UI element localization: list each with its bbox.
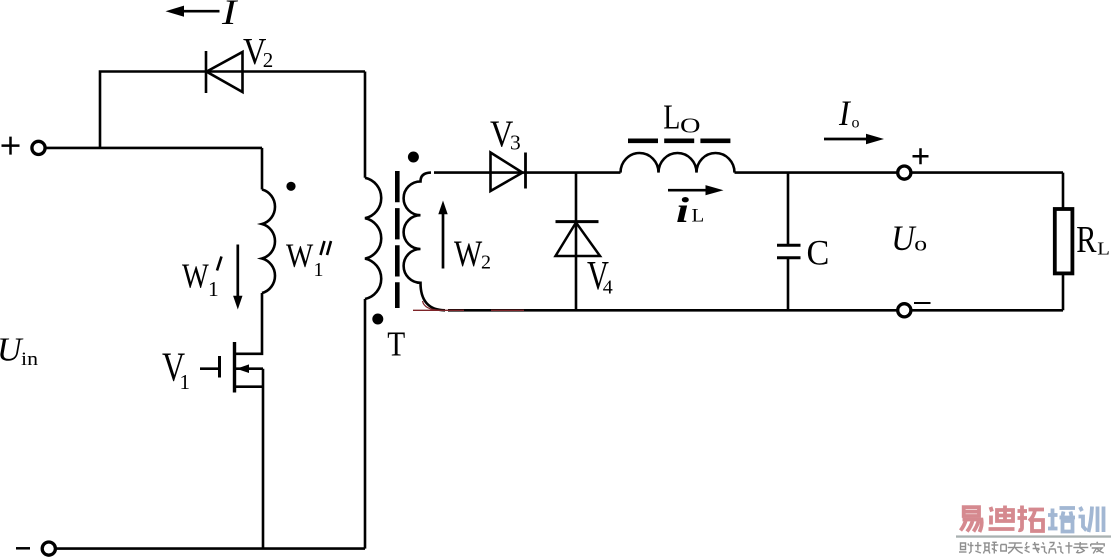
svg-text:o: o — [852, 114, 860, 131]
svg-text:L: L — [663, 98, 680, 137]
svg-text:in: in — [21, 349, 38, 369]
svg-text:W: W — [182, 257, 209, 295]
svg-text:U: U — [891, 218, 917, 258]
svg-text:R: R — [1076, 219, 1096, 261]
svg-text:o: o — [914, 233, 927, 256]
svg-text:I: I — [838, 93, 851, 133]
svg-text:T: T — [387, 324, 405, 363]
svg-text:3: 3 — [510, 131, 521, 155]
svg-text:L: L — [692, 205, 705, 226]
svg-text:i: i — [676, 191, 689, 231]
svg-text:1: 1 — [180, 370, 191, 394]
svg-text:C: C — [807, 233, 830, 273]
svg-text:L: L — [1097, 239, 1110, 258]
svg-text:O: O — [680, 115, 700, 138]
svg-text:I: I — [221, 0, 238, 32]
svg-text:1: 1 — [208, 277, 219, 301]
svg-text:4: 4 — [603, 276, 613, 298]
svg-text:W: W — [454, 234, 483, 274]
svg-text:2: 2 — [263, 48, 274, 72]
svg-text:1: 1 — [314, 259, 324, 281]
svg-text:W: W — [286, 236, 313, 274]
svg-text:2: 2 — [481, 251, 491, 273]
